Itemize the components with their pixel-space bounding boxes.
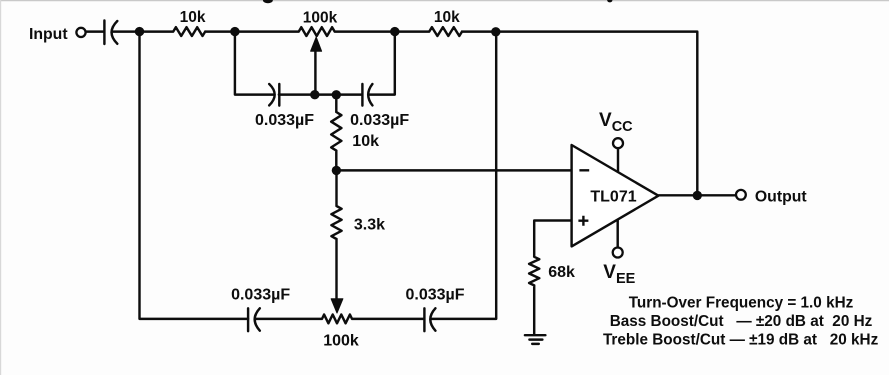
svg-text:TL071: TL071 (590, 189, 636, 206)
svg-text:10k: 10k (352, 133, 379, 150)
svg-text:100k: 100k (303, 10, 338, 27)
svg-text:100k: 100k (323, 332, 359, 349)
svg-text:0.033µF: 0.033µF (350, 112, 409, 129)
svg-text:Bass Boost/Cut — ±20 dB at: Bass Boost/Cut — ±20 dB at 20 Hz (610, 313, 873, 330)
svg-text:0.033µF: 0.033µF (405, 286, 464, 303)
svg-text:0.033µF: 0.033µF (255, 112, 314, 129)
svg-text:Input: Input (29, 26, 68, 43)
svg-text:68k: 68k (548, 264, 575, 281)
svg-text:3.3k: 3.3k (354, 217, 385, 234)
svg-text:Output: Output (755, 188, 807, 205)
svg-text:0.033µF: 0.033µF (231, 286, 290, 303)
svg-text:10k: 10k (180, 9, 206, 26)
svg-text:Treble Boost/Cut — ±19 dB at: Treble Boost/Cut — ±19 dB at 20 kHz (603, 331, 879, 348)
svg-text:Turn-Over Frequency = 1.0 kHz: Turn-Over Frequency = 1.0 kHz (629, 294, 854, 311)
svg-text:10k: 10k (434, 9, 460, 26)
